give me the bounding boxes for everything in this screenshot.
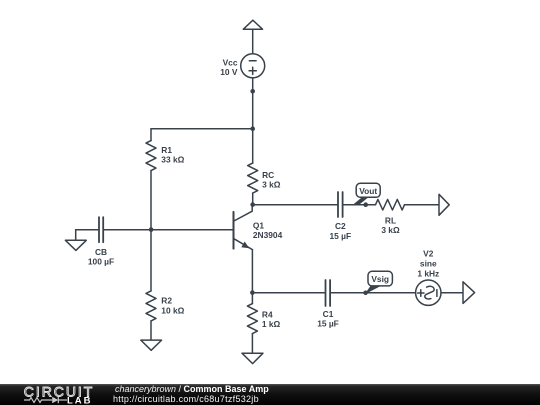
svg-text:Vout: Vout xyxy=(359,186,377,196)
svg-text:100 µF: 100 µF xyxy=(88,257,114,267)
svg-text:1 kHz: 1 kHz xyxy=(417,269,439,279)
svg-text:R1: R1 xyxy=(161,145,172,155)
svg-text:R4: R4 xyxy=(262,310,273,320)
svg-text:Vsig: Vsig xyxy=(371,274,389,284)
svg-text:15 µF: 15 µF xyxy=(317,319,339,329)
svg-text:2N3904: 2N3904 xyxy=(253,230,283,240)
svg-text:RL: RL xyxy=(385,216,396,226)
svg-text:1 kΩ: 1 kΩ xyxy=(262,319,281,329)
svg-text:3 kΩ: 3 kΩ xyxy=(262,179,281,189)
svg-text:10 kΩ: 10 kΩ xyxy=(161,305,184,315)
svg-text:Vcc: Vcc xyxy=(223,58,238,68)
svg-text:V2: V2 xyxy=(423,248,434,258)
svg-text:C1: C1 xyxy=(323,309,334,319)
svg-text:33 kΩ: 33 kΩ xyxy=(161,155,184,165)
svg-text:CB: CB xyxy=(95,247,107,257)
svg-text:15 µF: 15 µF xyxy=(330,231,352,241)
svg-text:sine: sine xyxy=(420,259,437,269)
svg-text:RC: RC xyxy=(262,170,274,180)
svg-text:Q1: Q1 xyxy=(253,220,265,230)
svg-text:10 V: 10 V xyxy=(220,67,238,77)
svg-text:LAB: LAB xyxy=(67,396,93,405)
svg-text:R2: R2 xyxy=(161,296,172,306)
svg-text:3 kΩ: 3 kΩ xyxy=(381,225,400,235)
svg-text:C2: C2 xyxy=(335,221,346,231)
